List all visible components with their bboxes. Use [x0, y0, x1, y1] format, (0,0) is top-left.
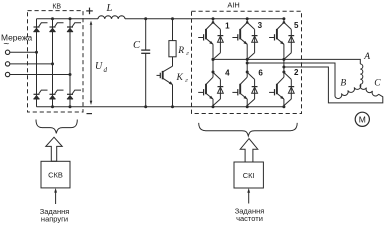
svg-text:СКІ: СКІ: [243, 171, 255, 180]
svg-text:5: 5: [294, 21, 299, 30]
svg-text:4: 4: [225, 69, 230, 78]
svg-text:L: L: [106, 3, 113, 14]
svg-text:1: 1: [225, 22, 230, 31]
svg-text:АІН: АІН: [227, 0, 239, 9]
svg-text:d: d: [104, 66, 108, 74]
svg-text:3: 3: [258, 21, 263, 30]
svg-text:B: B: [340, 79, 346, 89]
svg-text:КВ: КВ: [52, 4, 61, 11]
svg-text:М: М: [359, 115, 366, 125]
svg-text:C: C: [133, 40, 141, 51]
svg-text:К: К: [176, 73, 184, 83]
svg-text:частоти: частоти: [236, 214, 263, 223]
svg-text:C: C: [374, 79, 381, 89]
svg-text:2: 2: [294, 68, 299, 77]
svg-text:~: ~: [3, 39, 9, 50]
svg-text:г: г: [186, 50, 189, 57]
svg-text:СКВ: СКВ: [48, 171, 63, 180]
svg-text:R: R: [177, 46, 184, 56]
svg-text:A: A: [363, 52, 370, 62]
svg-text:U: U: [95, 61, 103, 72]
svg-text:6: 6: [258, 69, 263, 78]
svg-text:г: г: [185, 77, 188, 84]
svg-text:напруги: напруги: [41, 214, 68, 223]
